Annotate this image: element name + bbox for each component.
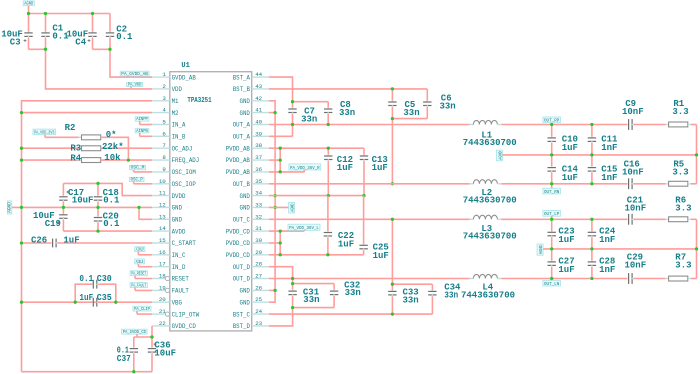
inductor L1 7443630700: [463, 120, 517, 148]
wire GVDD_CD pin 22 down: [151, 326, 153, 337]
svg-text:VDD: VDD: [172, 86, 183, 93]
svg-text:33n: 33n: [339, 108, 355, 118]
junction dots bootstrap C: [391, 218, 394, 316]
junction dots bootstrap A: [291, 100, 330, 126]
svg-text:GND: GND: [240, 299, 251, 306]
U1 pin 23 (BST_D): [233, 320, 269, 330]
U1 pin 7 (OC_ADJ): [152, 142, 192, 152]
svg-text:11: 11: [159, 190, 166, 197]
svg-text:10uF: 10uF: [72, 196, 94, 206]
svg-text:3.3: 3.3: [675, 204, 691, 214]
wire VBG pin 20 to AGND rail: [22, 301, 153, 303]
capacitor C35 1uF (on VBG wire): [79, 293, 111, 307]
capacitor C8 33n: [324, 100, 355, 125]
capacitor C16 10nF (snubber): [622, 159, 666, 189]
svg-text:24: 24: [255, 308, 262, 315]
svg-text:PVDD_CD: PVDD_CD: [226, 240, 251, 247]
svg-text:26: 26: [255, 284, 262, 291]
junction dots bottom block: [132, 335, 154, 373]
net label AINLP (pin 16): [135, 247, 152, 255]
svg-text:39: 39: [255, 130, 262, 137]
U1 pin 16 (IN_C): [152, 249, 186, 259]
svg-text:0.1: 0.1: [79, 274, 93, 284]
svg-text:AINLN: AINLN: [136, 260, 144, 265]
junction dots C22/C25: [326, 253, 329, 256]
svg-text:30: 30: [255, 237, 262, 244]
capacitor C36 10uF: [148, 337, 176, 372]
U1 pin 24 (BST_C): [233, 308, 269, 318]
resistor R5 3.3 (snubber): [666, 159, 697, 186]
junction dots PVDD_CD bus: [279, 229, 282, 256]
wire OUT_D pin 27 to L4: [269, 278, 470, 280]
wire AGND mid rail 1: [502, 154, 696, 156]
svg-text:RESET: RESET: [172, 276, 190, 283]
capacitor C23 1uF: [548, 219, 575, 249]
svg-text:PVDD_CD: PVDD_CD: [226, 228, 251, 235]
op-amp U1 TPA3251 body: [170, 62, 252, 331]
wire snubber return R6/R7 to AGND: [696, 219, 698, 278]
U1 pin 2 (VDD): [152, 83, 182, 93]
svg-text:1uF: 1uF: [372, 163, 388, 173]
svg-text:PA_VDD: PA_VDD: [128, 83, 142, 88]
U1 pin 33 (GND): [240, 201, 269, 211]
resistor R4 10k: [22, 153, 153, 164]
svg-text:PA_RESET: PA_RESET: [131, 272, 146, 277]
U1 pin 13 (GND): [152, 213, 182, 223]
resistor R3 22k: [22, 142, 153, 154]
svg-text:C37: C37: [117, 354, 131, 364]
wire BST_B pin 43 rail: [269, 88, 427, 90]
svg-text:9: 9: [162, 166, 166, 173]
svg-text:33n: 33n: [440, 102, 456, 112]
junction dots bootstrap D: [291, 277, 294, 309]
capacitor C17 10uF: [59, 183, 93, 207]
svg-text:IN_D: IN_D: [172, 264, 186, 271]
wire AGND left rail: [22, 101, 153, 372]
U1 pin 35 (OUT_B): [233, 178, 269, 188]
svg-text:C4: C4: [75, 37, 86, 47]
net label AINPP (pin 5): [135, 117, 152, 125]
resistor R7 3.3 (snubber): [666, 252, 697, 281]
capacitor C13 1uF: [360, 148, 388, 195]
capacitor C18 0.1: [94, 183, 120, 207]
svg-text:6: 6: [162, 130, 166, 137]
U1 pin 34 (GND): [240, 190, 269, 200]
svg-text:33: 33: [255, 201, 262, 208]
svg-text:R4: R4: [70, 154, 81, 164]
capacitor C33 33n: [388, 284, 419, 314]
net label AINLN (pin 17): [135, 259, 152, 267]
wire OUT_C pin 32 to L3: [269, 218, 470, 220]
U1 pin 31 (PVDD_CD): [226, 225, 269, 235]
wire OUT_LN rail: [501, 278, 626, 280]
net label OUT_RN: [543, 184, 561, 195]
U1 pin 20 (VBG): [152, 296, 182, 306]
wire OUT_D pin 28 down to pin 27: [269, 267, 293, 279]
svg-text:GND: GND: [240, 110, 251, 117]
capacitor C31 33n: [288, 284, 319, 308]
capacitor C21 10nF (snubber): [625, 196, 666, 225]
svg-text:4: 4: [162, 107, 166, 114]
U1 pin 10 (OSC_IOP): [152, 178, 196, 188]
capacitor C7 33n: [288, 102, 317, 137]
net label AINPN (pin 6): [135, 129, 152, 137]
capacitor C1 0.1: [41, 14, 69, 50]
U1 pin 39 (OUT_A): [233, 130, 269, 140]
svg-text:OUT_A: OUT_A: [233, 134, 251, 141]
capacitor C14 1uF: [548, 155, 579, 184]
U1 pin 6 (IN_B): [152, 130, 186, 140]
net label PA_VDD_36V_L: [288, 224, 320, 231]
svg-text:IN_C: IN_C: [172, 252, 186, 259]
svg-text:AINPN: AINPN: [136, 129, 148, 134]
svg-text:C35: C35: [97, 293, 112, 303]
svg-text:0*: 0*: [106, 130, 117, 140]
net label OSC_M (pin 9): [130, 166, 153, 172]
net label PA_FAULT (pin 19): [130, 283, 152, 291]
svg-text:OSC_IOP: OSC_IOP: [172, 181, 197, 188]
wire AVDD rail to pin 14: [63, 230, 152, 232]
junction dots bootstrap B: [391, 87, 394, 185]
capacitor C19 10uF: [33, 207, 68, 231]
wire AGND mid rail 2: [543, 248, 696, 250]
resistor R2 0ohm: [45, 123, 128, 160]
inductor L3 7443630700: [463, 215, 517, 241]
U1 pin 18 (RESET): [152, 273, 189, 283]
resistor R1 3.3 (snubber): [666, 99, 697, 127]
svg-text:OUT_D: OUT_D: [233, 264, 251, 271]
U1 pin 43 (BST_B): [233, 83, 269, 93]
svg-text:3.3: 3.3: [672, 107, 688, 117]
wire GND bus (pins 42,41,34,33,26,25): [269, 101, 275, 302]
svg-text:PVDD_AB: PVDD_AB: [226, 145, 251, 152]
svg-text:33n: 33n: [301, 114, 317, 124]
svg-text:M1: M1: [172, 98, 179, 105]
svg-text:1: 1: [162, 71, 166, 78]
wire M2 pin4 to AGND rail: [22, 112, 153, 114]
svg-text:32: 32: [255, 213, 262, 220]
svg-text:PA_GVDD_AB: PA_GVDD_AB: [121, 72, 148, 77]
inductor L2 7443630700: [463, 180, 517, 206]
wire DVDD rail to pin 11: [63, 183, 152, 195]
svg-text:R2: R2: [65, 123, 76, 133]
power flag AGND (pin 33): [289, 202, 296, 213]
net label PA_RESET (pin 18): [130, 271, 152, 279]
svg-text:22k*: 22k*: [102, 142, 124, 152]
svg-text:38: 38: [255, 142, 262, 149]
U1 pin 28 (OUT_D): [233, 261, 269, 271]
svg-text:3.3: 3.3: [675, 261, 691, 271]
U1 pin 38 (PVDD_AB): [226, 142, 269, 152]
svg-text:10uF: 10uF: [154, 348, 176, 358]
svg-text:3.3: 3.3: [672, 168, 688, 178]
capacitor C20 0.1: [94, 207, 120, 231]
svg-text:44: 44: [255, 71, 262, 78]
svg-text:1uF: 1uF: [337, 163, 353, 173]
svg-text:TPA3251: TPA3251: [187, 97, 211, 105]
svg-text:16: 16: [159, 249, 166, 256]
U1 pin 21 (CLIP_OTW): [152, 308, 200, 318]
net label PA_GVDD_CD: [122, 329, 152, 337]
capacitor C15 1nF: [588, 155, 618, 184]
svg-text:1uF: 1uF: [562, 143, 578, 153]
svg-text:OSC_P: OSC_P: [131, 178, 144, 183]
svg-text:15: 15: [159, 237, 166, 244]
junction dots left rail / R network: [20, 111, 130, 162]
svg-text:AGND: AGND: [291, 203, 296, 212]
capacitor C28 1nF: [588, 249, 616, 279]
junction dots filter 2: [550, 218, 698, 280]
svg-text:0.1: 0.1: [116, 32, 133, 42]
net label OUT_RP: [543, 117, 561, 125]
U1 pin 22 (GVDD_CD): [152, 320, 196, 330]
wire GND pin 33 stub with AGND flag: [269, 206, 292, 208]
wire snubber return R1/R5 to AGND: [696, 125, 698, 184]
capacitor C37 0.1: [117, 337, 138, 372]
junction dots C12/C13: [327, 147, 366, 198]
svg-text:VBG: VBG: [172, 299, 183, 306]
U1 pin 44 (BST_A): [233, 71, 269, 81]
svg-text:12: 12: [159, 201, 166, 208]
power flag AGND (top): [23, 1, 34, 14]
svg-text:IN_B: IN_B: [172, 134, 186, 141]
wire OUT_RN rail: [501, 183, 626, 185]
svg-text:OUT_D: OUT_D: [233, 276, 251, 283]
svg-text:PA_GVDD_CD: PA_GVDD_CD: [123, 330, 147, 335]
junction dots GND bus: [273, 111, 276, 292]
U1 pin 3 (M1): [152, 95, 179, 105]
svg-text:BST_C: BST_C: [233, 311, 251, 318]
U1 pin 26 (GND): [240, 284, 269, 294]
U1 pin 40 (OUT_A): [233, 119, 269, 129]
capacitor C22 1uF: [324, 196, 354, 255]
svg-text:18: 18: [159, 273, 166, 280]
wire OUT_A pin 39 stub: [269, 135, 293, 137]
svg-text:IN_A: IN_A: [172, 122, 186, 129]
junction dots top rail: [27, 12, 112, 51]
svg-text:28: 28: [255, 261, 262, 268]
svg-text:33n: 33n: [403, 296, 419, 306]
U1 pin 36 (PVDD_AB): [226, 166, 269, 176]
svg-text:43: 43: [255, 83, 262, 90]
net label PA_VDD_3V3: [33, 129, 56, 137]
U1 pin 12 (GND): [152, 201, 182, 211]
svg-text:1uF: 1uF: [562, 173, 578, 183]
U1 pin 25 (GND): [240, 296, 269, 306]
svg-text:1uF: 1uF: [558, 265, 574, 275]
svg-text:BST_D: BST_D: [233, 323, 251, 330]
power flag AGND (left edge): [7, 201, 12, 214]
svg-text:GND: GND: [240, 288, 251, 295]
svg-text:R3: R3: [70, 143, 81, 153]
svg-text:GND: GND: [240, 193, 251, 200]
U1 pin 37 (PVDD_AB): [226, 154, 269, 164]
svg-text:OUT_C: OUT_C: [233, 217, 251, 224]
wire C31/C32 top rail: [293, 279, 335, 284]
svg-text:GVDD_CD: GVDD_CD: [172, 323, 197, 330]
wire C3/C1 bottom join (PA_VDD): [29, 49, 153, 89]
svg-text:OUT_B: OUT_B: [233, 181, 251, 188]
net label PA_VDD_36V_R: [289, 164, 321, 172]
svg-text:33n: 33n: [303, 295, 319, 305]
net label PA_VDD: [127, 83, 143, 89]
svg-text:7443630700: 7443630700: [461, 291, 515, 301]
svg-text:GND: GND: [172, 205, 183, 212]
svg-text:AVDD: AVDD: [172, 228, 186, 235]
svg-text:GVDD_AB: GVDD_AB: [172, 74, 197, 81]
U1 pin 14 (AVDD): [152, 225, 186, 235]
svg-text:22: 22: [159, 320, 166, 327]
capacitor C26 1uF (C_START): [20, 236, 152, 248]
svg-text:14: 14: [159, 225, 166, 232]
net label PA_GVDD_AB: [120, 71, 149, 77]
svg-text:10nF: 10nF: [625, 204, 647, 214]
svg-text:17: 17: [159, 261, 166, 268]
svg-text:1nF: 1nF: [601, 143, 617, 153]
svg-text:OUT_LN: OUT_LN: [544, 282, 560, 287]
svg-text:42: 42: [255, 95, 262, 102]
svg-text:10: 10: [159, 178, 166, 185]
wire PVDD_AB bus pins 38/37/36: [269, 148, 364, 172]
wire OUT_LP rail: [501, 218, 626, 220]
U1 pin 29 (PVDD_CD): [226, 249, 269, 259]
svg-text:M2: M2: [172, 110, 179, 117]
U1 pin 17 (IN_D): [152, 261, 186, 271]
svg-text:C_START: C_START: [172, 240, 197, 247]
svg-text:7443630700: 7443630700: [463, 196, 517, 206]
wire OUT_B pin 35 to L2: [269, 183, 470, 185]
capacitor C24 1nF: [588, 219, 616, 249]
svg-text:C3: C3: [10, 37, 21, 47]
svg-text:AINPP: AINPP: [136, 117, 148, 122]
svg-text:OSC_M: OSC_M: [131, 166, 145, 171]
svg-text:41: 41: [255, 107, 262, 114]
junction dots VBG wire: [20, 301, 118, 304]
svg-text:33n: 33n: [403, 108, 419, 118]
U1 pin 8 (FREQ_ADJ): [152, 154, 199, 164]
svg-text:BST_A: BST_A: [233, 74, 251, 81]
wire BST_A pin 44 to C7/C8 rail: [269, 77, 328, 102]
svg-text:13: 13: [159, 213, 166, 220]
U1 pin 32 (OUT_C): [233, 213, 269, 223]
svg-text:8: 8: [162, 154, 166, 161]
svg-text:0.1: 0.1: [103, 219, 120, 229]
svg-text:0.1: 0.1: [103, 196, 120, 206]
power flag AGND (mid rail 1): [496, 150, 503, 161]
net label PA_CLIP (pin 21): [133, 306, 152, 314]
junction dots PVDD_AB bus: [279, 147, 282, 174]
capacitor C34 33n: [428, 283, 461, 315]
junction dots filter 1: [550, 123, 698, 186]
svg-text:OSC_IOM: OSC_IOM: [172, 169, 197, 176]
U1 pin 11 (DVDD): [152, 190, 186, 200]
svg-text:1uF: 1uF: [558, 235, 574, 245]
wire AGND top rail: [29, 13, 111, 15]
svg-text:FAULT: FAULT: [172, 288, 190, 295]
svg-text:33n: 33n: [345, 288, 361, 298]
svg-text:25: 25: [255, 296, 262, 303]
wire OUT_RP rail: [501, 124, 626, 126]
wire PVDD_CD bus pins 31/30/29: [269, 231, 364, 255]
svg-text:PVDD_AB: PVDD_AB: [226, 157, 251, 164]
svg-text:C19: C19: [45, 219, 61, 229]
U1 pin 1 (GVDD_AB): [152, 71, 196, 81]
wire C4/C2 bottom join (PA_GVDD_AB): [93, 49, 153, 77]
svg-text:21: 21: [159, 308, 166, 315]
capacitor C9 10nF (snubber): [622, 99, 666, 130]
capacitor C32 33n: [330, 280, 361, 307]
junction dots decoupling block: [20, 182, 141, 233]
svg-text:31: 31: [255, 225, 262, 232]
svg-text:PA_FAULT: PA_FAULT: [131, 283, 146, 288]
svg-text:DVDD: DVDD: [172, 193, 186, 200]
wire GND rail pin 34: [269, 195, 364, 197]
wire OUT_C drop to C33/C34 rail: [392, 219, 432, 284]
svg-text:7443630700: 7443630700: [463, 232, 517, 242]
U1 pin 4 (M2): [152, 107, 179, 117]
svg-text:1nF: 1nF: [599, 235, 615, 245]
U1 pin 41 (GND): [240, 107, 269, 117]
svg-text:1uF: 1uF: [63, 236, 79, 246]
svg-text:3: 3: [162, 95, 166, 102]
svg-text:AINLP: AINLP: [136, 248, 144, 253]
svg-text:35: 35: [255, 178, 262, 185]
svg-text:GND: GND: [240, 98, 251, 105]
svg-text:U1: U1: [181, 62, 189, 70]
svg-text:10k: 10k: [104, 153, 121, 163]
svg-text:1uF: 1uF: [338, 240, 354, 250]
svg-text:37: 37: [255, 154, 262, 161]
svg-text:23: 23: [255, 320, 262, 327]
svg-text:1uF: 1uF: [373, 251, 389, 261]
svg-text:29: 29: [255, 249, 262, 256]
svg-text:7: 7: [162, 142, 166, 149]
svg-text:36: 36: [255, 166, 262, 173]
svg-text:7443630700: 7443630700: [463, 138, 517, 148]
U1 pin 30 (PVDD_CD): [226, 237, 269, 247]
svg-text:OC_ADJ: OC_ADJ: [172, 145, 193, 152]
wire AGND mid rail to pins 12/13: [12, 207, 152, 219]
svg-text:20: 20: [159, 296, 166, 303]
svg-text:27: 27: [255, 273, 262, 280]
svg-text:40: 40: [255, 119, 262, 126]
U1 pin 9 (OSC_IOM): [152, 166, 196, 176]
svg-text:2: 2: [162, 83, 166, 90]
svg-text:19: 19: [159, 284, 166, 291]
capacitor C3 10uF: [1, 14, 33, 50]
svg-text:OUT_A: OUT_A: [233, 122, 251, 129]
capacitor C12 1uF: [324, 148, 353, 195]
svg-text:10nF: 10nF: [622, 107, 644, 117]
U1 pin 19 (FAULT): [152, 284, 189, 294]
svg-text:5: 5: [162, 119, 166, 126]
svg-text:PVDD_CD: PVDD_CD: [226, 252, 251, 259]
svg-text:33n: 33n: [444, 291, 458, 301]
svg-text:C30: C30: [97, 274, 112, 284]
capacitor C5 33n: [388, 89, 419, 119]
U1 pin 27 (OUT_D): [233, 273, 269, 283]
svg-text:GND: GND: [172, 217, 183, 224]
svg-text:OUT_RN: OUT_RN: [544, 190, 560, 195]
wire OUT_A pin 40 to L1: [269, 124, 470, 126]
svg-text:1nF: 1nF: [599, 265, 615, 275]
U1 pin 42 (GND): [240, 95, 269, 105]
svg-text:CLIP_OTW: CLIP_OTW: [172, 311, 200, 318]
capacitor C6 33n: [423, 89, 456, 119]
svg-text:GND: GND: [240, 205, 251, 212]
capacitor C29 10nF (snubber): [625, 252, 666, 284]
net label OUT_LP: [543, 211, 561, 220]
